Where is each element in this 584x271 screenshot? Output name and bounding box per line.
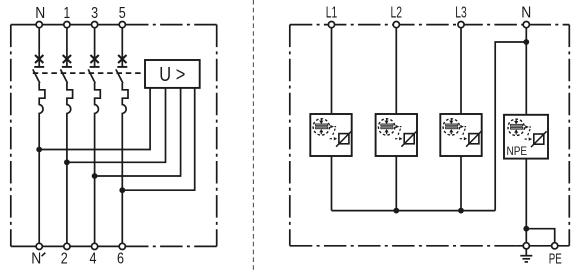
svg-text:NPE: NPE [507,144,528,158]
svg-text:5: 5 [119,5,126,22]
SPD F3 box [440,114,481,156]
breaker pole 4 moving contact [116,69,123,83]
SPD F1 symbol [313,119,352,147]
breaker pole 3 moving contact [88,69,95,83]
breaker pole 2 fixed contact bar [62,66,72,68]
breaker pole 1 X contact symbol [35,55,43,63]
wire pole2 to U> [67,88,166,162]
right enclosure border left side [289,25,291,246]
terminal N' bottom [36,243,42,249]
terminal N [36,22,42,28]
junction N branch [523,39,529,45]
junction pole1 [36,147,42,153]
junction pole4 [119,187,125,193]
breaker pole 1 moving contact [33,69,40,83]
terminal 3 [92,22,98,28]
breaker pole 4 X contact symbol [118,55,126,63]
terminal L3 [458,22,464,28]
wire PE branch [526,229,554,243]
left enclosure border right side [216,25,218,247]
svg-text:N: N [31,251,41,268]
svg-text:6: 6 [117,251,124,268]
junction pole3 [92,173,98,179]
wire pole1 to U> [39,88,150,150]
SPD F2 box [376,114,417,156]
right enclosure border right side [568,25,570,246]
junction F2 bus [393,208,399,214]
svg-text:L2: L2 [391,5,403,22]
SPD F1 box [310,114,351,156]
breaker pole 1 wire top [38,28,40,66]
breaker pole 1 thermal + magnetic release body [39,83,45,243]
breaker pole 3 wire top [94,28,96,66]
right enclosure border top [290,24,570,26]
terminal 6 bottom [119,243,125,249]
svg-text:N: N [521,5,531,22]
wire L2 drop [395,28,397,114]
bottom PE bus solid [517,245,569,247]
wire N branch to bus [495,42,526,211]
wire NPE to ground [525,159,527,243]
wire pole4 to U> [122,88,194,190]
top terminal bus solid [11,24,136,26]
wire SPD F2 to bus [395,156,397,211]
wire N drop [525,28,527,115]
junction pole2 [64,159,70,165]
SPD F2 symbol [378,119,417,147]
svg-text:1: 1 [64,5,71,22]
terminal 1 [64,22,70,28]
terminal L2 [393,22,399,28]
terminal 2 bottom [64,243,70,249]
breaker pole 4 fixed contact bar [117,66,127,68]
breaker pole 2 moving contact [61,69,68,83]
breaker pole 2 X contact symbol [63,55,71,63]
terminal PE [552,243,558,249]
svg-text:4: 4 [90,251,97,268]
breaker pole 2 thermal + magnetic release body [67,83,73,243]
junction F3 bus [458,208,464,214]
svg-text:L1: L1 [326,5,338,22]
breaker pole 3 fixed contact bar [90,66,100,68]
left enclosure border bottom dash-dot [133,245,217,247]
svg-text:U >: U > [159,63,185,86]
bottom bus wire [332,210,496,212]
trip linkage dashed line [33,72,145,74]
undervoltage release U> box [145,60,200,88]
terminal N right [523,22,529,28]
svg-text:3: 3 [91,5,98,22]
SPD NPE box [504,115,548,159]
svg-text:L3: L3 [455,5,467,22]
divider line between panels [252,0,254,271]
wire L3 drop [460,28,462,114]
ground symbol [520,249,532,262]
svg-text:PE: PE [549,251,562,267]
left enclosure border top dash-dot [136,24,217,26]
svg-text:N: N [35,5,45,22]
label N' prime mark [42,253,46,257]
bottom terminal bus solid [11,245,133,247]
breaker pole 1 fixed contact bar [34,66,44,68]
terminal L1 [328,22,334,28]
wire SPD F3 to bus [460,156,462,211]
breaker pole 2 wire top [66,28,68,66]
terminal 5 [119,22,125,28]
right enclosure border bottom [290,245,517,247]
terminal ground [523,243,529,249]
breaker pole 4 thermal + magnetic release body [122,83,128,243]
SPD F3 symbol [443,119,482,147]
terminal 4 bottom [92,243,98,249]
SPD NPE symbol [508,119,547,147]
left enclosure border left side [10,25,12,247]
breaker pole 3 X contact symbol [90,55,98,63]
svg-text:2: 2 [61,251,68,268]
wire SPD F1 to bus [331,156,333,211]
wire L1 drop [331,28,333,114]
breaker pole 3 thermal + magnetic release body [95,83,101,243]
wire pole3 to U> [95,88,181,176]
breaker pole 4 wire top [121,28,123,66]
junction PE branch [523,226,529,232]
